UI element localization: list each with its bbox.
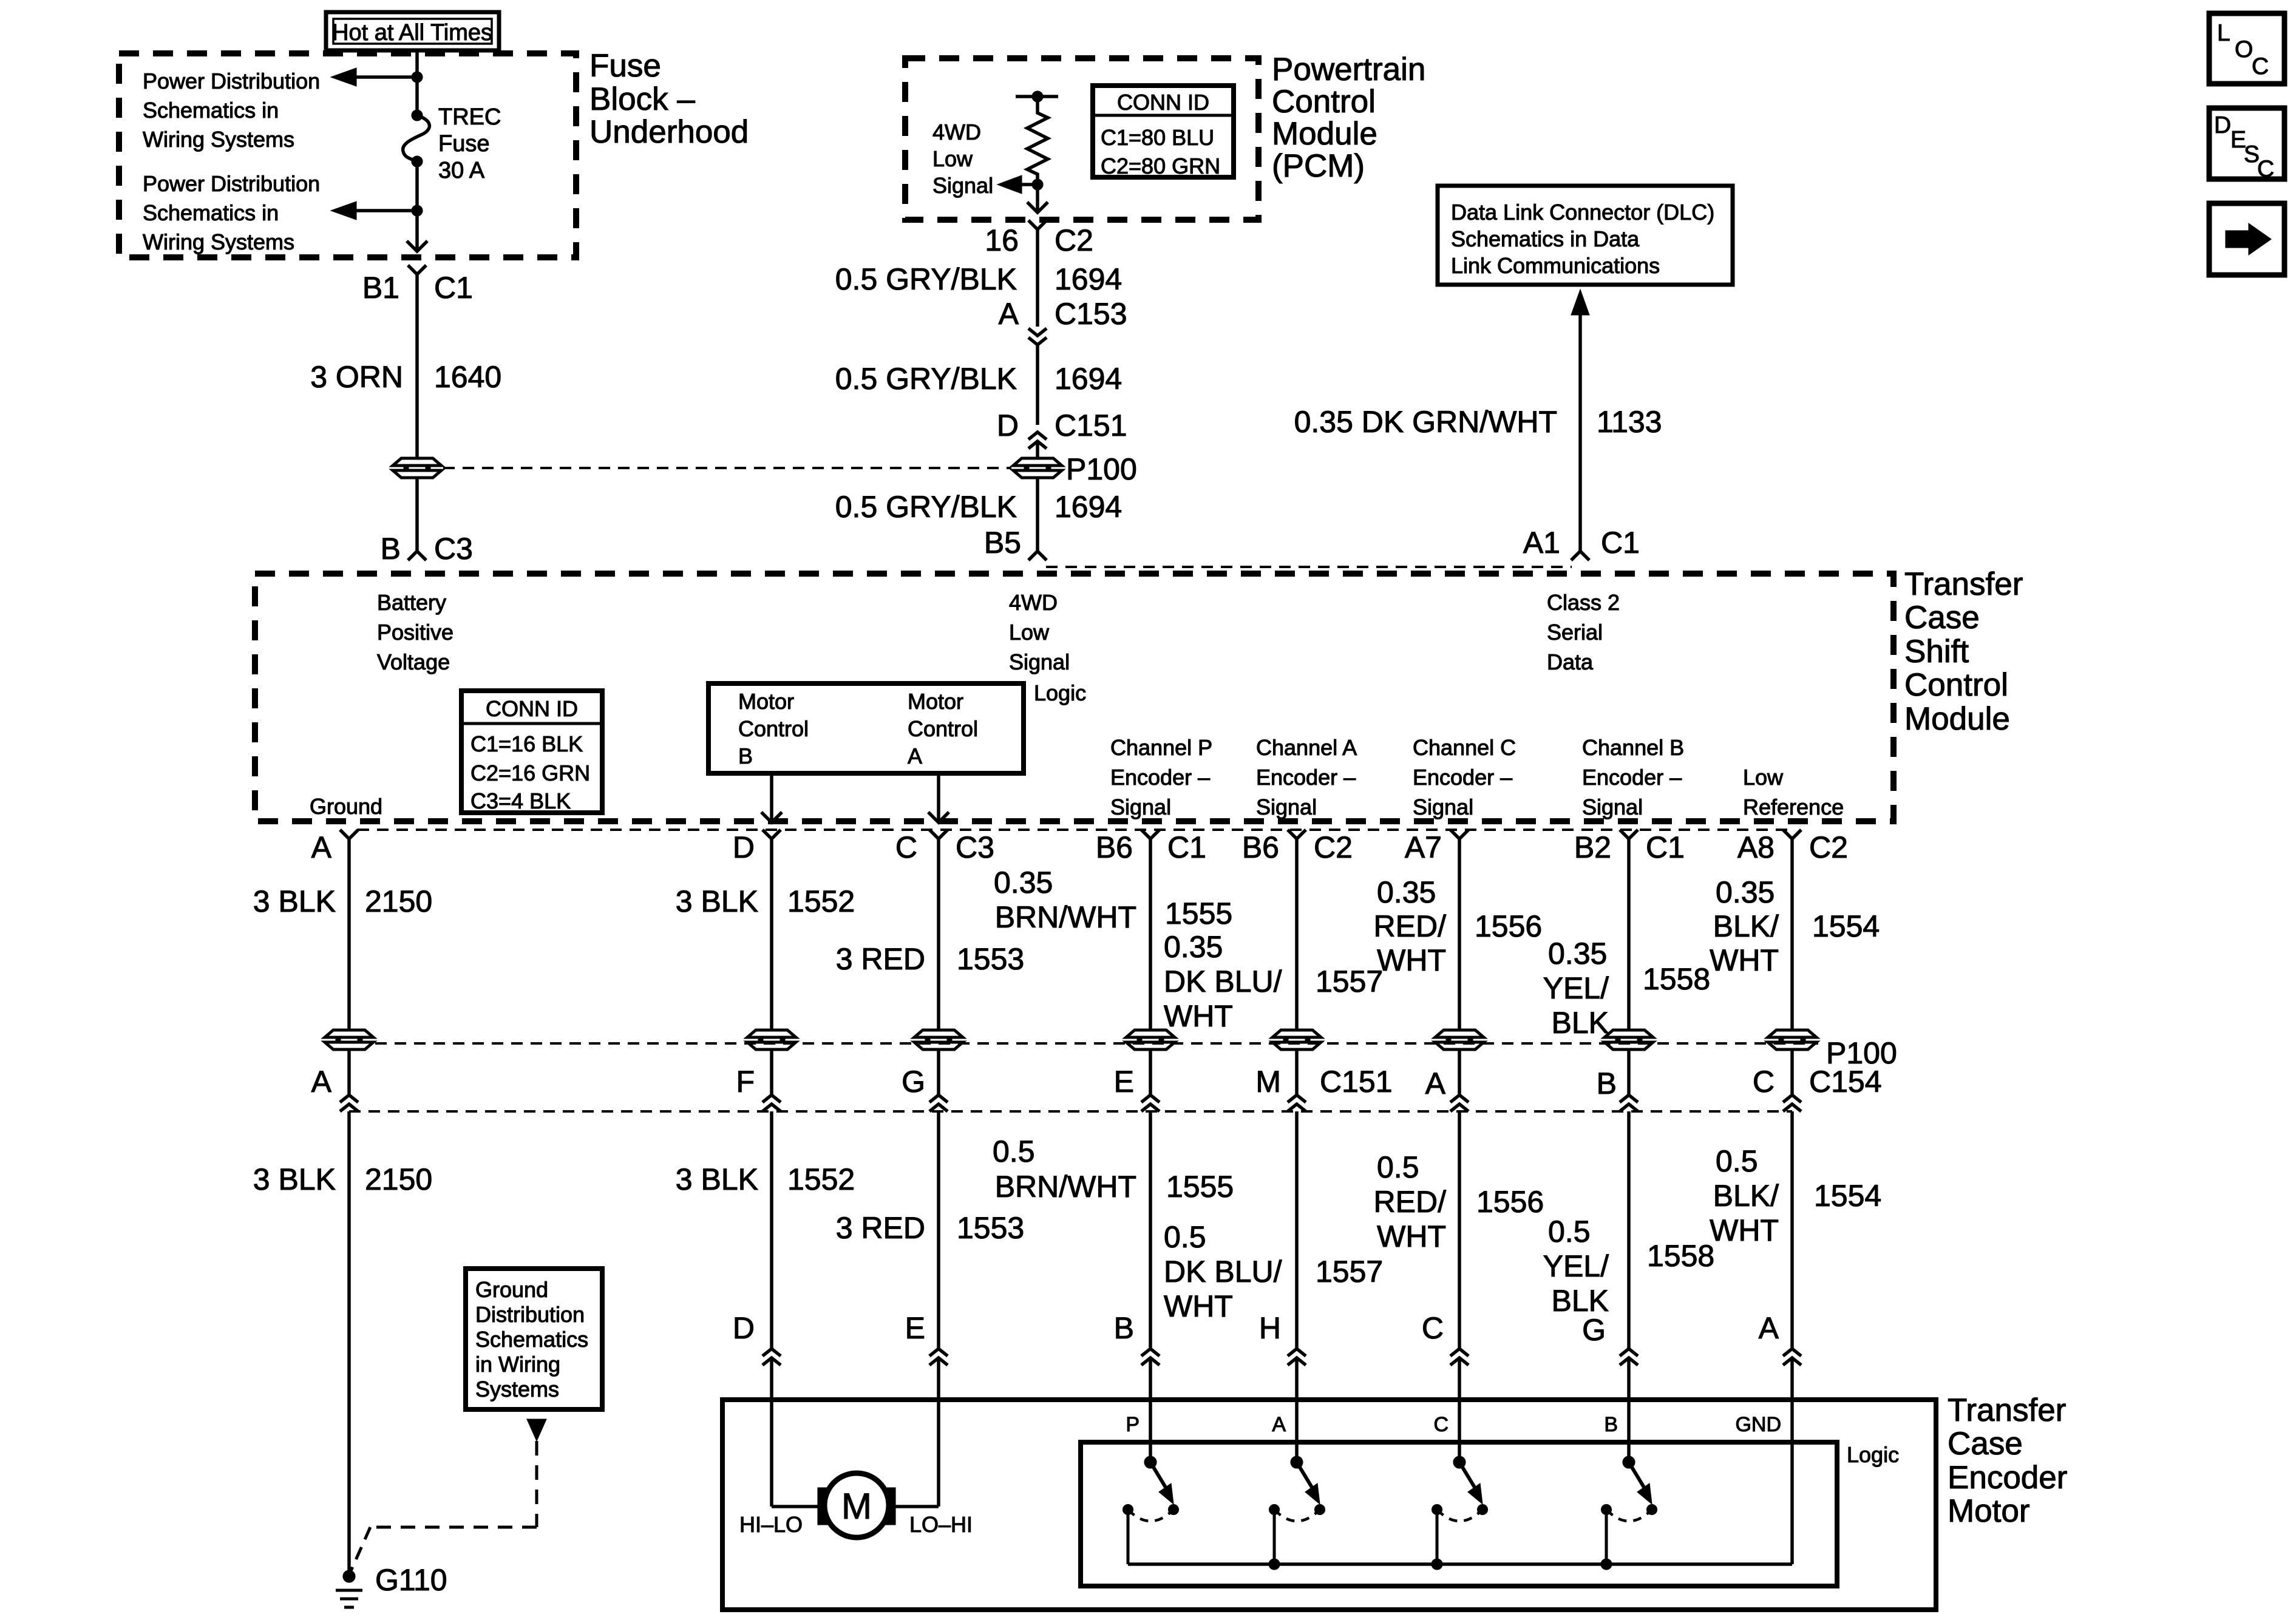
wire upper segment LR <box>1790 839 1794 1029</box>
svg-text:3 BLK: 3 BLK <box>253 1162 336 1196</box>
svg-text:Control: Control <box>738 716 809 741</box>
svg-text:0.35: 0.35 <box>1164 930 1223 964</box>
inline connector P100 CB <box>1605 1030 1653 1049</box>
junction lower with arrow to power distribution <box>412 205 423 216</box>
switch at x=2683 <box>1627 1400 1631 1462</box>
svg-text:0.5 GRY/BLK: 0.5 GRY/BLK <box>835 490 1017 524</box>
wire upper segment CA <box>1295 839 1299 1029</box>
wire P100 to C151/C154 LR <box>1790 1049 1794 1095</box>
svg-text:Power Distribution: Power Distribution <box>143 171 320 196</box>
svg-text:C2: C2 <box>1314 830 1353 864</box>
male connector arrow at fuse block exit <box>407 241 427 251</box>
svg-text:Encoder: Encoder <box>1948 1460 2067 1496</box>
connector C153 chevrons <box>1028 328 1047 336</box>
svg-text:Signal: Signal <box>1110 795 1171 819</box>
svg-text:Wiring Systems: Wiring Systems <box>143 229 294 254</box>
motor control B arrow to edge <box>770 773 773 822</box>
svg-text:C1: C1 <box>434 271 473 305</box>
connector B/C3 fork into module <box>408 551 426 560</box>
connector C151 chevrons <box>1028 432 1047 439</box>
connector chevrons into encoder motor CB <box>1620 1349 1638 1356</box>
svg-text:Shift: Shift <box>1904 634 1969 670</box>
svg-text:Hot at All Times: Hot at All Times <box>332 20 492 46</box>
svg-text:A: A <box>999 297 1019 331</box>
svg-text:1694: 1694 <box>1055 362 1122 396</box>
connector chevrons into encoder motor P <box>1141 1349 1160 1356</box>
svg-text:16: 16 <box>985 223 1019 257</box>
PCM dashed box <box>905 58 1258 220</box>
svg-text:Power Distribution: Power Distribution <box>143 69 320 93</box>
connector chevrons into encoder motor LR <box>1783 1349 1801 1356</box>
svg-text:Positive: Positive <box>377 620 453 645</box>
svg-text:1554: 1554 <box>1814 1179 1881 1213</box>
svg-text:YEL/: YEL/ <box>1543 1249 1609 1283</box>
svg-text:1553: 1553 <box>957 942 1024 976</box>
switch at x=1895 <box>1149 1400 1152 1462</box>
svg-text:3 BLK: 3 BLK <box>676 1162 758 1196</box>
svg-text:C2: C2 <box>1809 830 1848 864</box>
connector C151/C154 chevrons C <box>929 1095 948 1102</box>
fork exit P at module bottom <box>1141 830 1160 839</box>
svg-text:Block –: Block – <box>589 81 695 117</box>
dashed path to G110 <box>535 1441 538 1527</box>
svg-text:1133: 1133 <box>1597 405 1662 439</box>
svg-text:G: G <box>902 1065 925 1099</box>
svg-text:1554: 1554 <box>1812 909 1880 943</box>
svg-text:3 RED: 3 RED <box>836 942 925 976</box>
svg-text:C1=80 BLU: C1=80 BLU <box>1101 125 1214 150</box>
svg-text:Logic: Logic <box>1034 680 1086 705</box>
svg-text:DK BLU/: DK BLU/ <box>1164 1255 1282 1289</box>
inline connector P100 D <box>747 1030 796 1049</box>
fuse TREC 30A <box>412 110 423 121</box>
svg-text:Fuse: Fuse <box>438 131 489 157</box>
svg-text:Fuse: Fuse <box>589 48 661 84</box>
svg-text:L: L <box>2217 20 2230 46</box>
svg-text:B6: B6 <box>1242 830 1279 864</box>
svg-text:1553: 1553 <box>957 1211 1024 1245</box>
svg-text:4WD: 4WD <box>1009 590 1058 615</box>
fork exit LR at module bottom <box>1783 830 1801 839</box>
connector A1/C1 fork into module <box>1571 551 1589 560</box>
svg-text:CONN ID: CONN ID <box>486 696 578 721</box>
logic box inside encoder motor <box>1081 1442 1837 1586</box>
wire lower segment C <box>937 1111 940 1349</box>
LOC navigation box <box>2209 13 2284 84</box>
svg-text:B: B <box>1114 1311 1134 1345</box>
connector C151/C154 chevrons P <box>1141 1095 1160 1102</box>
svg-text:M: M <box>1255 1065 1281 1099</box>
svg-text:1558: 1558 <box>1643 962 1710 996</box>
svg-text:Case: Case <box>1904 600 1980 636</box>
wire to PCM exit with male arrow <box>1036 185 1039 212</box>
svg-text:Schematics: Schematics <box>475 1327 588 1352</box>
svg-text:HI–LO: HI–LO <box>739 1512 803 1537</box>
wire lower segment P <box>1149 1111 1152 1349</box>
svg-text:3 BLK: 3 BLK <box>676 884 758 918</box>
svg-text:RED/: RED/ <box>1374 1185 1447 1219</box>
DLC reference box <box>1438 186 1733 285</box>
svg-text:BRN/WHT: BRN/WHT <box>995 1170 1136 1204</box>
svg-text:B: B <box>381 532 401 566</box>
svg-text:WHT: WHT <box>1710 943 1779 977</box>
connector chevrons into encoder motor CA <box>1288 1349 1306 1356</box>
wire P100 to C151/C154 CB <box>1627 1049 1631 1095</box>
switch common bus <box>1128 1562 1792 1566</box>
svg-text:C2: C2 <box>1055 223 1093 257</box>
hot at all times box <box>326 12 499 50</box>
svg-text:0.5: 0.5 <box>1716 1144 1758 1178</box>
svg-text:BLK: BLK <box>1551 1006 1609 1040</box>
svg-text:BLK/: BLK/ <box>1713 1179 1779 1213</box>
svg-text:Channel C: Channel C <box>1413 735 1516 760</box>
internal voltage rail <box>1016 95 1058 98</box>
svg-text:CONN ID: CONN ID <box>1117 90 1209 115</box>
svg-text:1556: 1556 <box>1476 1185 1544 1219</box>
svg-text:D: D <box>997 408 1019 442</box>
svg-text:1694: 1694 <box>1055 490 1122 524</box>
svg-text:WHT: WHT <box>1710 1213 1779 1247</box>
svg-text:WHT: WHT <box>1164 999 1233 1033</box>
wire lower segment D <box>770 1111 773 1349</box>
svg-text:Ground: Ground <box>475 1277 548 1302</box>
svg-text:1557: 1557 <box>1316 964 1383 998</box>
motor control logic box <box>708 683 1024 773</box>
svg-text:Signal: Signal <box>1413 795 1473 819</box>
fork exit CC at module bottom <box>1450 830 1469 839</box>
thin dashed line P100 row 1 <box>443 467 1011 469</box>
svg-text:DK BLU/: DK BLU/ <box>1164 964 1282 998</box>
ground G110 symbol <box>343 1570 355 1582</box>
switch at x=2404 <box>1458 1400 1461 1462</box>
svg-text:Data: Data <box>1547 649 1594 674</box>
wire upper segment CB <box>1627 839 1631 1029</box>
svg-text:Channel P: Channel P <box>1110 735 1212 760</box>
svg-text:Low: Low <box>1009 620 1050 645</box>
connector C151/C154 chevrons CC <box>1450 1095 1469 1102</box>
svg-text:GND: GND <box>1735 1413 1781 1436</box>
svg-text:E: E <box>905 1311 925 1345</box>
svg-text:Module: Module <box>1272 116 1377 152</box>
svg-text:0.5: 0.5 <box>993 1134 1035 1168</box>
svg-text:P: P <box>1126 1413 1140 1436</box>
svg-text:1557: 1557 <box>1316 1255 1383 1289</box>
svg-text:2150: 2150 <box>365 884 432 918</box>
wire 0.5 GRY/BLK 1694 segment 3 <box>1036 478 1039 551</box>
svg-text:B6: B6 <box>1096 830 1133 864</box>
svg-text:0.5: 0.5 <box>1377 1150 1419 1184</box>
connector chevrons into encoder motor CC <box>1450 1349 1469 1356</box>
svg-text:D: D <box>733 830 755 864</box>
connector chevrons into encoder motor C <box>929 1349 948 1356</box>
svg-text:WHT: WHT <box>1377 1219 1446 1253</box>
wire 3 ORN 1640 <box>415 274 419 458</box>
svg-text:Battery: Battery <box>377 590 446 615</box>
svg-text:Transfer: Transfer <box>1948 1392 2066 1428</box>
svg-text:0.5 GRY/BLK: 0.5 GRY/BLK <box>835 262 1017 296</box>
svg-text:Ground: Ground <box>310 794 382 819</box>
svg-text:C1: C1 <box>1601 526 1640 560</box>
svg-text:2150: 2150 <box>365 1162 432 1196</box>
svg-text:TREC: TREC <box>438 104 501 130</box>
connector C151/C154 chevrons D <box>763 1095 781 1102</box>
svg-text:Encoder –: Encoder – <box>1110 765 1210 790</box>
svg-text:Wiring Systems: Wiring Systems <box>143 127 294 152</box>
svg-text:1694: 1694 <box>1055 262 1122 296</box>
svg-text:YEL/: YEL/ <box>1543 971 1609 1005</box>
connector B5 fork into module <box>1028 551 1047 560</box>
fork exit C at module bottom <box>929 830 948 839</box>
svg-text:B: B <box>1597 1066 1617 1100</box>
svg-text:B1: B1 <box>362 271 399 305</box>
wire P100 to C151/C154 CC <box>1458 1049 1461 1095</box>
svg-text:Voltage: Voltage <box>377 649 450 674</box>
svg-text:0.35: 0.35 <box>1548 937 1607 971</box>
wire P100 to C151/C154 D <box>770 1049 773 1095</box>
svg-text:Control: Control <box>1904 667 2008 703</box>
svg-text:C1=16 BLK: C1=16 BLK <box>470 731 583 756</box>
svg-text:Link Communications: Link Communications <box>1451 253 1660 278</box>
wire P100 to C151/C154 CA <box>1295 1049 1299 1095</box>
svg-text:0.35: 0.35 <box>994 866 1053 900</box>
svg-text:0.35: 0.35 <box>1716 875 1775 909</box>
connector 16/C2 fork <box>1028 220 1047 229</box>
fork exit CA at module bottom <box>1288 830 1306 839</box>
svg-text:1552: 1552 <box>787 884 855 918</box>
svg-text:H: H <box>1259 1311 1281 1345</box>
svg-text:C151: C151 <box>1320 1065 1393 1099</box>
wire upper segment P <box>1149 839 1152 1029</box>
thin dashed connector line B5 to A1 <box>1046 566 1572 568</box>
svg-text:C154: C154 <box>1809 1065 1882 1099</box>
thin dashed connector line below module bottom edge <box>358 829 1792 831</box>
svg-text:D: D <box>2214 112 2231 138</box>
svg-text:1555: 1555 <box>1166 1170 1234 1204</box>
wire to TCSCM <box>415 478 419 551</box>
svg-text:Signal: Signal <box>932 173 993 198</box>
svg-text:C3: C3 <box>956 830 994 864</box>
svg-text:3 RED: 3 RED <box>836 1211 925 1245</box>
inline connector P100 C <box>914 1030 963 1049</box>
svg-text:C1: C1 <box>1646 830 1685 864</box>
inline connector P100 on battery feed <box>393 458 441 478</box>
svg-text:Control: Control <box>908 716 978 741</box>
connector C151/C154 chevrons LR <box>1783 1095 1801 1102</box>
svg-text:1555: 1555 <box>1165 897 1232 931</box>
fork exit CB at module bottom <box>1620 830 1638 839</box>
wire P100 to C151/C154 C <box>937 1049 940 1095</box>
svg-text:B2: B2 <box>1574 830 1611 864</box>
CONN ID table PCM <box>1093 86 1234 177</box>
svg-text:P100: P100 <box>1066 452 1137 486</box>
wire upper segment CC <box>1458 839 1461 1029</box>
svg-text:Channel A: Channel A <box>1256 735 1357 760</box>
svg-text:LO–HI: LO–HI <box>909 1512 973 1537</box>
svg-text:M: M <box>841 1486 872 1527</box>
wire lower segment A <box>347 1111 351 1570</box>
svg-text:C: C <box>1422 1311 1444 1345</box>
triangle pointer from ground distribution box <box>527 1419 546 1441</box>
svg-text:Motor: Motor <box>738 689 794 714</box>
svg-text:Control: Control <box>1272 84 1376 120</box>
wire upper segment D <box>770 839 773 1029</box>
svg-text:3 ORN: 3 ORN <box>310 360 403 394</box>
connector chevrons into encoder motor D <box>763 1349 781 1356</box>
svg-text:Signal: Signal <box>1256 795 1317 819</box>
CONN ID table TCSCM <box>461 691 602 813</box>
svg-text:BLK/: BLK/ <box>1713 909 1779 943</box>
svg-text:1558: 1558 <box>1647 1239 1714 1273</box>
svg-text:C3: C3 <box>434 532 473 566</box>
switch at x=2136 <box>1295 1400 1299 1462</box>
svg-text:Encoder –: Encoder – <box>1413 765 1512 790</box>
svg-text:Module: Module <box>1904 701 2010 737</box>
svg-text:E: E <box>1114 1065 1134 1099</box>
thin dashed line C151/C154 row <box>349 1110 1792 1113</box>
inline connector P100 P <box>1126 1030 1175 1049</box>
wire P100 to C151/C154 P <box>1149 1049 1152 1095</box>
wire fuse to lower junction <box>415 161 419 251</box>
svg-text:4WD: 4WD <box>932 120 981 144</box>
fork exit A at module bottom <box>340 830 358 839</box>
svg-text:A: A <box>311 830 332 864</box>
svg-text:Case: Case <box>1948 1426 2023 1462</box>
svg-text:B5: B5 <box>984 526 1021 560</box>
svg-text:C1: C1 <box>1167 830 1206 864</box>
svg-text:Encoder –: Encoder – <box>1582 765 1682 790</box>
wire upper segment C <box>937 839 940 1029</box>
svg-text:Motor: Motor <box>908 689 963 714</box>
svg-text:C: C <box>1433 1413 1449 1436</box>
svg-text:3 BLK: 3 BLK <box>253 884 336 918</box>
svg-text:Channel B: Channel B <box>1582 735 1684 760</box>
forward arrow box <box>2209 203 2284 275</box>
svg-text:1640: 1640 <box>434 360 501 394</box>
resistor pull-up <box>1027 97 1048 185</box>
svg-text:A1: A1 <box>1523 526 1560 560</box>
svg-text:Transfer: Transfer <box>1904 566 2023 602</box>
wire upper segment A <box>347 839 351 1029</box>
wire from hot at all times to fuse <box>415 50 419 115</box>
svg-text:Serial: Serial <box>1547 620 1603 645</box>
svg-text:G: G <box>1582 1313 1606 1347</box>
connector C151/C154 chevrons CA <box>1288 1095 1306 1102</box>
svg-text:O: O <box>2235 36 2253 63</box>
svg-text:C2=16 GRN: C2=16 GRN <box>470 761 590 785</box>
motor M with brushes <box>770 1400 773 1507</box>
svg-text:Low: Low <box>1743 765 1784 790</box>
arrow up to DLC box <box>1571 290 1589 315</box>
svg-text:Powertrain: Powertrain <box>1272 52 1425 87</box>
svg-text:WHT: WHT <box>1377 943 1446 977</box>
transfer case encoder motor box <box>722 1400 1936 1610</box>
svg-text:BRN/WHT: BRN/WHT <box>995 900 1136 934</box>
svg-text:Underhood: Underhood <box>589 114 749 150</box>
fuse block dashed box <box>119 53 576 257</box>
svg-text:0.35: 0.35 <box>1377 875 1436 909</box>
wire lower segment LR <box>1790 1111 1794 1349</box>
inline connector P100 CC <box>1435 1030 1484 1049</box>
svg-text:WHT: WHT <box>1164 1289 1233 1323</box>
svg-text:Signal: Signal <box>1009 649 1070 674</box>
wire lower segment CB <box>1627 1111 1631 1349</box>
junction upper with arrow to power distribution <box>412 72 423 83</box>
svg-text:Systems: Systems <box>475 1377 559 1402</box>
junction 4WD low signal with arrow <box>1032 179 1043 190</box>
wire P100 to C151/C154 A <box>347 1049 351 1095</box>
inline connector P100 A <box>325 1030 373 1049</box>
thin dashed line P100 row 2 <box>375 1042 1818 1045</box>
gnd wire into logic box <box>1790 1400 1794 1564</box>
svg-text:Class 2: Class 2 <box>1547 590 1620 615</box>
svg-text:A: A <box>1272 1413 1286 1436</box>
svg-text:0.5: 0.5 <box>1164 1220 1206 1254</box>
svg-text:A7: A7 <box>1405 830 1442 864</box>
svg-text:B: B <box>1604 1413 1618 1436</box>
svg-text:(PCM): (PCM) <box>1272 148 1365 184</box>
svg-text:A: A <box>1759 1311 1779 1345</box>
wire lower segment CA <box>1295 1111 1299 1349</box>
inline connector P100 on 4WD low signal <box>1013 458 1062 478</box>
svg-text:C: C <box>895 830 917 864</box>
wire lower segment CC <box>1458 1111 1461 1349</box>
svg-text:Reference: Reference <box>1743 795 1844 819</box>
svg-text:30 A: 30 A <box>438 158 485 183</box>
svg-text:0.35 DK GRN/WHT: 0.35 DK GRN/WHT <box>1294 405 1557 439</box>
svg-text:Encoder –: Encoder – <box>1256 765 1356 790</box>
ground distribution reference box <box>466 1269 602 1409</box>
svg-text:G110: G110 <box>375 1563 447 1597</box>
svg-text:1556: 1556 <box>1475 909 1542 943</box>
svg-text:C: C <box>2257 156 2274 182</box>
fork exit D at module bottom <box>763 830 781 839</box>
motor control A arrow to edge <box>937 773 940 822</box>
wire 0.5 GRY/BLK 1694 segment 1 <box>1036 229 1039 327</box>
svg-text:A: A <box>1425 1066 1446 1100</box>
svg-text:F: F <box>736 1065 755 1099</box>
svg-text:Low: Low <box>932 146 973 171</box>
svg-text:Signal: Signal <box>1582 795 1643 819</box>
svg-text:C153: C153 <box>1055 297 1127 331</box>
svg-text:C3=4 BLK: C3=4 BLK <box>470 788 571 813</box>
connector C151/C154 chevrons CB <box>1620 1095 1638 1102</box>
svg-text:C151: C151 <box>1055 408 1127 442</box>
inline connector P100 CA <box>1272 1030 1321 1049</box>
connector C151/C154 chevrons A <box>340 1095 358 1102</box>
svg-text:C: C <box>2252 53 2269 80</box>
svg-text:Schematics in Data: Schematics in Data <box>1451 226 1640 251</box>
svg-text:Schematics in: Schematics in <box>143 98 279 123</box>
svg-text:in Wiring: in Wiring <box>475 1352 560 1377</box>
svg-text:Schematics in: Schematics in <box>143 200 279 225</box>
svg-text:0.5: 0.5 <box>1548 1215 1591 1249</box>
DESC navigation box <box>2209 108 2284 179</box>
svg-text:Distribution: Distribution <box>475 1302 585 1327</box>
transfer case shift control module dashed box <box>255 574 1894 821</box>
connector B1/C1 fork <box>408 265 426 274</box>
svg-text:C: C <box>1753 1065 1775 1099</box>
svg-text:Logic: Logic <box>1847 1442 1899 1467</box>
svg-text:A: A <box>908 744 922 768</box>
svg-text:0.5 GRY/BLK: 0.5 GRY/BLK <box>835 362 1017 396</box>
svg-text:B: B <box>738 744 753 768</box>
svg-text:Data Link Connector (DLC): Data Link Connector (DLC) <box>1451 200 1714 225</box>
svg-text:D: D <box>733 1311 755 1345</box>
svg-text:Motor: Motor <box>1948 1493 2029 1529</box>
wire 0.5 GRY/BLK 1694 segment 2 <box>1036 345 1039 425</box>
svg-text:1552: 1552 <box>787 1162 855 1196</box>
svg-text:RED/: RED/ <box>1374 909 1447 943</box>
